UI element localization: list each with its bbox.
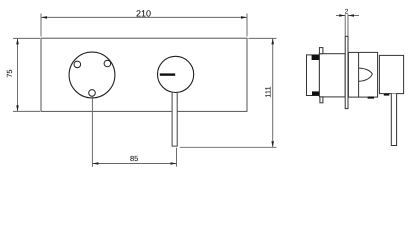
- dim 2 arrow right: [348, 14, 354, 17]
- side view valve main body: [319, 54, 345, 97]
- side view rear seal top (black): [312, 55, 320, 60]
- side view rear seal bottom (black): [312, 91, 319, 95]
- side view wall plate edge: [345, 36, 348, 108]
- dim 210 dimension line: [41, 16, 247, 18]
- side view valve rear housing: [307, 55, 320, 96]
- screw hole top-right: [104, 60, 111, 67]
- svg-text:85: 85: [130, 154, 138, 163]
- cartridge circle left: [69, 52, 115, 98]
- dim 2 dimension line right: [348, 15, 359, 17]
- dim 111 extension line top: [249, 37, 277, 39]
- dim 2 extension line right: [347, 14, 349, 36]
- dim 2 dimension line left: [336, 15, 345, 17]
- dim 75 arrow top: [16, 38, 19, 44]
- dim 210 extension line right: [246, 14, 248, 37]
- dim 111 arrow top: [271, 38, 274, 44]
- side view top tab: [319, 48, 323, 54]
- svg-text:75: 75: [5, 69, 14, 77]
- side view handle knob: [379, 55, 403, 93]
- dim 210 extension line left: [40, 14, 42, 37]
- svg-text:2: 2: [345, 9, 349, 16]
- dim 85 extension line right: [176, 148, 178, 167]
- side view set screw under knob (black): [384, 94, 390, 96]
- side view set screw under hub (black): [368, 97, 374, 99]
- dim 2 arrow left: [339, 14, 345, 17]
- side view escutcheon hub: [348, 52, 377, 97]
- side view hub inner line: [358, 52, 360, 97]
- side view bottom tab: [320, 97, 323, 103]
- dim 85 arrow left: [92, 162, 98, 165]
- side view lever profile lens: [359, 68, 372, 81]
- dim 210 arrow left: [41, 16, 47, 19]
- dim 111 extension line bottom: [180, 146, 277, 148]
- lever front view: [172, 93, 177, 146]
- plate front view: [41, 38, 247, 111]
- dim 75 extension line top: [13, 37, 40, 39]
- dim 85 arrow right: [171, 162, 177, 165]
- dim 2 extension line left: [344, 14, 346, 36]
- dim 75 arrow bottom: [16, 105, 19, 111]
- dim 210 arrow right: [241, 16, 247, 19]
- dim 75 extension line bottom: [13, 110, 40, 112]
- dim 111 dimension line: [272, 38, 274, 147]
- svg-text:111: 111: [264, 86, 273, 97]
- dim 111 arrow bottom: [271, 141, 274, 147]
- screw hole top-left: [74, 61, 81, 68]
- handle slot bar: [160, 73, 175, 75]
- screw hole bottom: [89, 90, 96, 97]
- svg-text:210: 210: [136, 8, 151, 18]
- side view lever: [391, 94, 396, 146]
- handle circle right: [158, 56, 194, 92]
- dim 85 dimension line: [92, 163, 176, 165]
- dim 85 extension line left: [91, 97, 93, 167]
- dim 75 dimension line: [17, 38, 19, 111]
